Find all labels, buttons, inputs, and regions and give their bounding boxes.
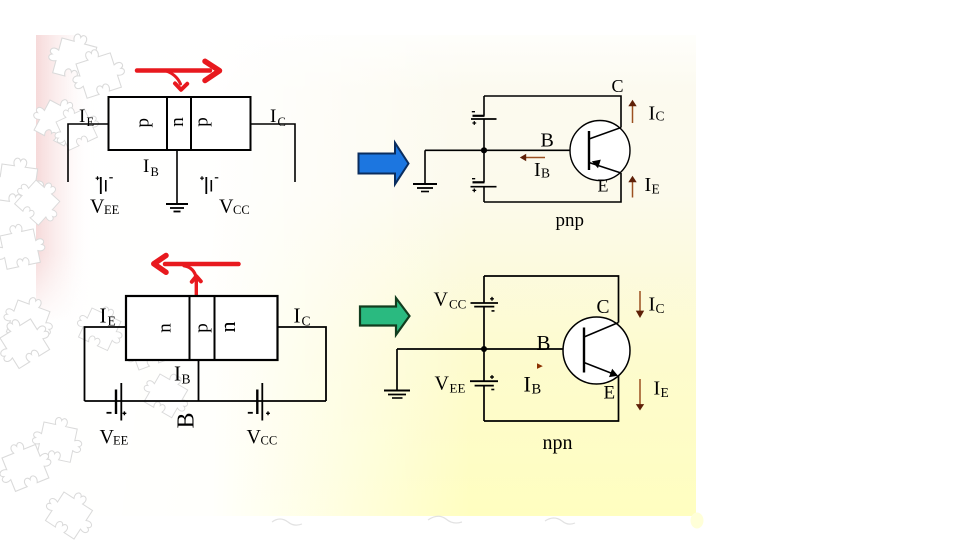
svg-text:C: C bbox=[302, 314, 311, 329]
svg-text:I: I bbox=[645, 174, 652, 196]
svg-text:C: C bbox=[656, 109, 665, 124]
svg-text:I: I bbox=[534, 159, 541, 181]
svg-text:n: n bbox=[215, 322, 240, 333]
svg-text:EE: EE bbox=[104, 203, 120, 217]
svg-text:V: V bbox=[247, 426, 262, 448]
svg-text:B: B bbox=[151, 165, 159, 179]
svg-text:E: E bbox=[661, 385, 669, 400]
svg-text:I: I bbox=[649, 103, 656, 125]
svg-text:I: I bbox=[294, 304, 301, 328]
svg-text:CC: CC bbox=[261, 434, 278, 448]
svg-text:I: I bbox=[174, 362, 181, 386]
svg-text:n: n bbox=[167, 117, 188, 127]
svg-text:npn: npn bbox=[543, 432, 573, 454]
svg-text:I: I bbox=[649, 294, 656, 316]
svg-text:I: I bbox=[100, 304, 107, 328]
svg-text:CC: CC bbox=[449, 297, 466, 312]
svg-text:B: B bbox=[174, 412, 200, 428]
svg-text:V: V bbox=[434, 288, 449, 310]
svg-text:B: B bbox=[532, 382, 542, 398]
svg-text:EE: EE bbox=[450, 381, 466, 396]
svg-text:V: V bbox=[90, 196, 105, 218]
svg-text:E: E bbox=[108, 314, 116, 329]
svg-text:B: B bbox=[537, 331, 551, 355]
svg-text:p: p bbox=[133, 118, 154, 128]
svg-text:C: C bbox=[656, 301, 665, 316]
svg-text:I: I bbox=[79, 106, 85, 127]
svg-text:pnp: pnp bbox=[556, 210, 585, 231]
svg-text:I: I bbox=[524, 372, 531, 397]
svg-text:n: n bbox=[154, 323, 175, 333]
svg-text:E: E bbox=[598, 176, 609, 196]
svg-text:p: p bbox=[191, 117, 212, 127]
svg-text:EE: EE bbox=[113, 434, 129, 448]
svg-text:I: I bbox=[143, 156, 149, 177]
svg-text:V: V bbox=[219, 196, 234, 218]
svg-text:E: E bbox=[87, 115, 95, 129]
svg-text:B: B bbox=[541, 129, 554, 151]
svg-text:I: I bbox=[270, 106, 276, 127]
svg-text:p: p bbox=[191, 323, 212, 333]
svg-text:I: I bbox=[654, 378, 661, 400]
svg-text:B: B bbox=[541, 166, 550, 181]
svg-text:E: E bbox=[604, 383, 616, 404]
svg-text:C: C bbox=[612, 76, 624, 96]
svg-text:C: C bbox=[597, 297, 610, 318]
svg-text:CC: CC bbox=[233, 203, 250, 217]
svg-text:V: V bbox=[435, 373, 450, 395]
svg-text:C: C bbox=[278, 115, 286, 129]
svg-text:E: E bbox=[652, 182, 660, 197]
svg-text:B: B bbox=[182, 372, 191, 387]
